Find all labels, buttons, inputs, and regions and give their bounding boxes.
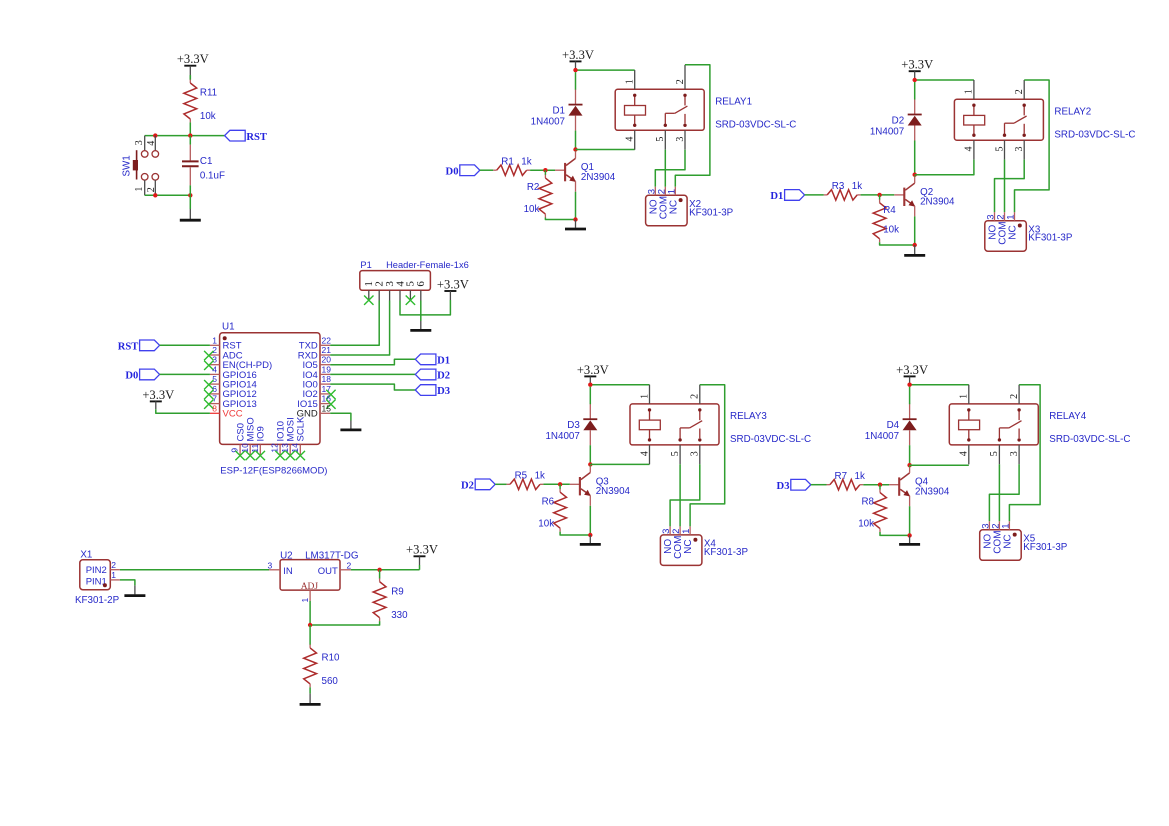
diode D1 1N4007: [531, 89, 583, 131]
wire R6 bottom to emitter node: [560, 532, 590, 535]
svg-text:1N4007: 1N4007: [870, 126, 904, 137]
svg-text:8: 8: [212, 403, 217, 413]
svg-text:2: 2: [1014, 89, 1025, 94]
svg-text:4: 4: [625, 137, 636, 142]
relay RELAY3 labels: [730, 411, 811, 445]
wire R10 bottom to ground: [309, 687, 311, 693]
svg-text:14: 14: [290, 443, 300, 453]
wire X1 pin 1 to ground: [120, 580, 135, 586]
connector P1 Header-Female-1x6: [360, 260, 469, 291]
resistor R2 10k: [524, 170, 552, 217]
svg-text:4: 4: [964, 147, 975, 152]
capacitor C1 0.1uF: [182, 145, 225, 186]
terminal X4 KF301-3P: [660, 526, 748, 565]
node: emitter/ground junction: [573, 217, 577, 221]
svg-text:1k: 1k: [852, 181, 862, 192]
+3.3V power (relay circuit 4): [896, 363, 928, 385]
svg-text:SW1: SW1: [122, 155, 133, 176]
wire diode anode to collector node: [575, 131, 577, 150]
P1 pin 6: [415, 281, 427, 301]
relay RELAY2 pin 1: [964, 80, 975, 99]
wire collector node to relay pin 4: [590, 463, 649, 465]
svg-text:2: 2: [212, 345, 217, 355]
ground (P1): [410, 321, 431, 330]
node: emitter/ground junction: [907, 533, 911, 537]
svg-text:R11: R11: [200, 88, 217, 99]
svg-text:R8: R8: [861, 497, 874, 508]
wire X1 pin 2 to U2 IN: [120, 569, 269, 571]
svg-text:D1: D1: [437, 356, 450, 367]
node: base of Q1: [543, 168, 547, 172]
svg-text:RELAY3: RELAY3: [730, 411, 767, 422]
+3.3V power (relay circuit 2): [901, 58, 933, 80]
svg-text:10k: 10k: [883, 224, 899, 235]
wire relay pin 3 (NO) to terminal: [995, 160, 1025, 213]
relay RELAY3 pin 3: [690, 445, 701, 464]
relay RELAY3 SRD-03VDC-SL-C: [630, 404, 719, 445]
wire supply node to diode cathode: [909, 387, 911, 405]
relay RELAY2 pin 2: [1014, 80, 1025, 99]
net flag D2 (input): [461, 479, 495, 492]
svg-text:R1: R1: [501, 157, 514, 168]
svg-text:2N3904: 2N3904: [915, 487, 950, 498]
svg-text:560: 560: [322, 676, 339, 687]
wire U1 RXD to P1 pin 3: [330, 301, 389, 356]
diode D3 1N4007: [545, 404, 597, 446]
svg-text:D3: D3: [567, 420, 580, 431]
wire P1 pin 6 to ground: [420, 301, 422, 322]
svg-text:2: 2: [111, 560, 116, 570]
wire C1 to bottom row: [189, 185, 191, 195]
wire relay pin 5 (COM) to terminal: [664, 150, 666, 187]
svg-text:9: 9: [230, 448, 240, 453]
wire diode anode to collector node: [589, 445, 591, 464]
wire emitter of Q2 to ground node: [914, 216, 916, 245]
wire U2 ADJ down: [309, 601, 311, 625]
relay RELAY2 pin 3: [1014, 140, 1025, 159]
node: collector supply junction: [913, 78, 917, 82]
U1 pin 15 GND: [297, 403, 332, 419]
svg-text:P1: P1: [360, 260, 371, 270]
svg-text:3: 3: [268, 560, 273, 570]
svg-text:+3.3V: +3.3V: [142, 388, 174, 402]
wire diode anode to collector node: [914, 141, 916, 175]
node: ADJ junction: [308, 623, 312, 627]
wire R11 to RST node: [189, 122, 191, 135]
svg-text:R10: R10: [322, 653, 341, 664]
wire relay pin 2 to NC rail: [1015, 80, 1050, 212]
svg-text:5: 5: [670, 451, 681, 456]
svg-text:SRD-03VDC-SL-C: SRD-03VDC-SL-C: [730, 434, 811, 445]
wire U2 OUT to +3.3V: [351, 569, 420, 571]
relay RELAY3 pin 1: [639, 385, 650, 404]
svg-text:1N4007: 1N4007: [865, 431, 899, 442]
wire relay pin 3 (NO) to terminal: [989, 464, 1019, 521]
svg-text:3: 3: [212, 355, 217, 365]
svg-text:2: 2: [690, 394, 701, 399]
U1 pin 3 EN(CH-PD): [204, 355, 272, 371]
resistor R5 1k: [507, 471, 545, 490]
switch SW1 pins 1/2 stubs: [134, 180, 157, 195]
svg-text:4: 4: [146, 141, 157, 146]
svg-text:10k: 10k: [538, 518, 554, 529]
relay RELAY1 pin 1: [625, 70, 636, 89]
svg-text:4: 4: [212, 364, 217, 374]
svg-text:R7: R7: [835, 471, 848, 482]
svg-text:18: 18: [322, 374, 332, 384]
wire collector node to Q2: [914, 175, 916, 178]
svg-text:SRD-03VDC-SL-C: SRD-03VDC-SL-C: [1049, 434, 1130, 445]
P1 pin 1: [363, 281, 375, 305]
wire U1 GND pin 15 to ground: [330, 413, 351, 420]
svg-text:330: 330: [391, 610, 408, 621]
ground (circuit 4): [899, 535, 920, 544]
net flag D1: [415, 354, 450, 367]
U1 pin 1 RST: [210, 335, 242, 351]
svg-text:1: 1: [639, 394, 650, 399]
svg-text:R4: R4: [883, 205, 896, 216]
svg-text:21: 21: [322, 345, 332, 355]
net flag D1 (input): [770, 190, 804, 203]
resistor R8 10k: [858, 485, 886, 532]
svg-text:D2: D2: [437, 371, 450, 382]
wire +3.3V to R11: [189, 75, 191, 80]
svg-text:10k: 10k: [524, 204, 540, 215]
svg-text:1: 1: [111, 570, 116, 580]
wire +3.3V stub down: [419, 565, 421, 570]
node: collector supply junction: [907, 383, 911, 387]
svg-text:1: 1: [134, 187, 145, 192]
svg-text:20: 20: [322, 355, 332, 365]
svg-text:D2: D2: [892, 116, 905, 127]
resistor R11 10k: [184, 75, 217, 122]
svg-text:+3.3V: +3.3V: [901, 58, 933, 72]
svg-text:1: 1: [1000, 524, 1011, 529]
svg-text:3: 3: [690, 451, 701, 456]
ground (U1): [340, 421, 361, 430]
svg-text:NC: NC: [1008, 225, 1019, 239]
node: base of Q3: [558, 482, 562, 486]
U1 pin 14 SCLK: [290, 416, 307, 460]
U2 pin 2 OUT: [340, 560, 352, 570]
node: RST net junction: [188, 133, 192, 137]
svg-text:2N3904: 2N3904: [920, 197, 955, 208]
U1 pin 10 MISO: [240, 417, 257, 460]
relay RELAY3 pin 4: [639, 445, 650, 464]
wire R8 bottom to emitter node: [880, 532, 910, 535]
node: collector of Q2: [913, 173, 917, 177]
svg-text:ESP-12F(ESP8266MOD): ESP-12F(ESP8266MOD): [220, 465, 327, 476]
svg-text:1k: 1k: [855, 471, 865, 482]
svg-text:4: 4: [639, 451, 650, 456]
wire relay pin 5 (COM) to terminal: [1004, 160, 1006, 213]
relay RELAY1 pin 3: [675, 130, 686, 149]
P1 pin 5: [405, 281, 417, 305]
wire U1 IO5 to D1 flag: [330, 359, 415, 364]
node: U2 OUT junction: [377, 568, 381, 572]
svg-text:1: 1: [959, 394, 970, 399]
relay RELAY4 SRD-03VDC-SL-C: [949, 404, 1038, 445]
net flag RST (to U1): [118, 340, 160, 353]
wire relay pin 2 to NC rail: [675, 65, 710, 187]
svg-text:NC: NC: [1002, 534, 1013, 548]
U1 pin 13 MOSI: [280, 417, 297, 460]
wire R2 bottom to emitter node: [545, 218, 575, 220]
svg-text:R3: R3: [832, 181, 845, 192]
transistor Q3 2N3904: [570, 465, 631, 506]
svg-text:2N3904: 2N3904: [581, 172, 616, 183]
wire relay pin 3 (NO) to terminal: [655, 150, 685, 187]
svg-text:D4: D4: [887, 420, 900, 431]
resistor R9 330: [373, 570, 408, 621]
wire D1 flag to R3: [805, 194, 824, 196]
P1 pin 2: [374, 281, 386, 300]
U1 pin 8 VCC: [210, 403, 243, 419]
svg-text:RST: RST: [246, 132, 267, 143]
wire +3.3V to relay pin 1: [915, 79, 974, 81]
node: collector of Q1: [573, 147, 577, 151]
transistor Q1 2N3904: [555, 151, 616, 192]
wire +3.3V to relay pin 1: [576, 69, 635, 71]
U1 pin 22 TXD: [299, 335, 331, 351]
node: base of Q4: [878, 483, 882, 487]
svg-text:6: 6: [212, 384, 217, 394]
svg-text:1: 1: [681, 529, 692, 534]
svg-text:KF301-3P: KF301-3P: [704, 547, 749, 558]
wire RST node to C1: [189, 136, 191, 145]
svg-text:1: 1: [300, 598, 310, 603]
wire +3.3V to U1 VCC pin 8: [156, 409, 210, 413]
wire relay pin 3 (NO) to terminal: [670, 464, 700, 526]
relay RELAY4 pin 2: [1009, 385, 1020, 404]
wire relay pin 2 to NC rail: [690, 385, 725, 527]
svg-text:12: 12: [270, 443, 280, 453]
svg-text:5: 5: [989, 451, 1000, 456]
relay RELAY4 pin 3: [1009, 445, 1020, 464]
svg-text:KF301-2P: KF301-2P: [75, 595, 120, 606]
svg-text:1: 1: [964, 89, 975, 94]
svg-text:13: 13: [280, 443, 290, 453]
resistor R10 560: [304, 625, 340, 687]
wire R9 bottom to ADJ node: [310, 621, 380, 625]
U1 pin 7 GPIO13: [204, 394, 257, 410]
U1 pin 18 IO0: [302, 374, 331, 390]
svg-text:2N3904: 2N3904: [596, 486, 631, 497]
svg-text:R6: R6: [542, 496, 555, 507]
node: emitter/ground junction: [588, 533, 592, 537]
terminal X2 KF301-3P: [646, 187, 734, 226]
node: C1 bottom junction: [188, 193, 192, 197]
node: collector supply junction: [573, 68, 577, 72]
svg-text:+3.3V: +3.3V: [437, 277, 469, 291]
wire R5 to base node: [543, 483, 569, 485]
svg-text:1: 1: [212, 335, 217, 345]
U1 pin 5 GPIO14: [204, 374, 257, 390]
wire collector node to Q4: [909, 466, 911, 468]
resistor R6 10k: [538, 484, 566, 531]
svg-text:D1: D1: [552, 106, 565, 117]
svg-text:U2: U2: [280, 550, 293, 561]
relay RELAY1 pin 2: [675, 65, 686, 90]
wire supply node to diode cathode: [589, 387, 591, 405]
svg-text:SRD-03VDC-SL-C: SRD-03VDC-SL-C: [715, 120, 796, 131]
node: collector of Q3: [588, 462, 592, 466]
wire relay pin 5 (COM) to terminal: [679, 464, 681, 526]
ground (reset): [180, 209, 201, 220]
wire U1 TXD to P1 pin 2: [330, 301, 379, 346]
P1 pin 3: [384, 281, 396, 301]
svg-text:IO9: IO9: [256, 426, 267, 441]
wire +3.3V to relay pin 1: [910, 384, 969, 386]
+3.3V power (relay circuit 3): [577, 363, 609, 385]
svg-text:7: 7: [212, 394, 217, 404]
svg-text:11: 11: [250, 444, 260, 453]
switch SW1 body: [122, 150, 159, 180]
terminal X1 KF301-2P: [75, 550, 120, 606]
wire collector node to Q3: [589, 465, 591, 466]
relay RELAY2 pin 5: [994, 140, 1005, 159]
wire collector node to Q1: [575, 150, 577, 152]
wire emitter of Q4 to ground node: [909, 506, 911, 535]
svg-text:+3.3V: +3.3V: [562, 48, 594, 62]
svg-text:SCLK: SCLK: [296, 416, 307, 441]
U1 pin 19 IO4: [302, 364, 331, 380]
terminal X3 KF301-3P: [985, 212, 1073, 251]
svg-text:RST: RST: [118, 342, 139, 353]
net flag D3: [415, 385, 450, 398]
wire D0 flag to U1 pin 4: [160, 373, 210, 375]
wire relay pin 5 (COM) to terminal: [998, 464, 1000, 521]
svg-text:1N4007: 1N4007: [545, 431, 579, 442]
net flag D0 (from U1): [125, 369, 159, 382]
+3.3V power (reset): [177, 52, 209, 75]
U1 pin 2 ADC: [204, 345, 243, 361]
U1 pin 6 GPIO12: [204, 384, 257, 400]
ground (X1): [124, 585, 145, 595]
svg-text:PIN2: PIN2: [86, 565, 107, 576]
+3.3V power (P1): [437, 277, 469, 300]
net flag RST (output): [225, 130, 267, 143]
relay RELAY2 pin 4: [964, 140, 975, 159]
svg-text:RELAY2: RELAY2: [1054, 107, 1091, 118]
svg-text:19: 19: [322, 364, 332, 374]
net flag D3 (input): [777, 479, 811, 492]
relay RELAY4 pin 5: [989, 445, 1000, 464]
wire P1 pin 4 to +3.3V: [400, 300, 450, 315]
switch SW1 pins 3/4 stubs: [134, 136, 157, 151]
relay RELAY1 labels: [715, 97, 796, 131]
svg-text:+3.3V: +3.3V: [577, 363, 609, 377]
svg-text:1k: 1k: [535, 471, 545, 482]
wire SW1 bottom row: [145, 194, 191, 196]
+3.3V power (U2 OUT): [406, 543, 438, 565]
svg-text:22: 22: [322, 335, 332, 345]
svg-text:2: 2: [675, 79, 686, 84]
svg-text:10: 10: [240, 443, 250, 453]
ground (circuit 3): [580, 535, 601, 544]
svg-text:6: 6: [415, 281, 427, 287]
transistor Q2 2N3904: [894, 176, 955, 217]
wire collector node to relay pin 4: [576, 149, 635, 151]
node: collector supply junction: [588, 383, 592, 387]
svg-text:2: 2: [1009, 394, 1020, 399]
relay RELAY2 SRD-03VDC-SL-C: [954, 99, 1043, 140]
U1 pin 9 CS0: [230, 423, 247, 460]
relay RELAY1 SRD-03VDC-SL-C: [615, 89, 704, 130]
svg-text:D1: D1: [770, 191, 783, 202]
ground (R10): [300, 694, 321, 705]
wire diode anode to collector node: [909, 445, 911, 465]
svg-text:SRD-03VDC-SL-C: SRD-03VDC-SL-C: [1054, 129, 1135, 140]
svg-text:D0: D0: [125, 371, 138, 382]
svg-text:KF301-3P: KF301-3P: [1028, 233, 1073, 244]
wire R3 to base node: [861, 194, 895, 196]
U2 pin 1 ADJ: [300, 590, 310, 602]
relay RELAY4 labels: [1049, 411, 1130, 445]
wire emitter of Q1 to ground node: [575, 192, 577, 220]
diode D2 1N4007: [870, 99, 922, 141]
U1 pin 12 IO10: [270, 421, 287, 460]
+3.3V power (relay circuit 1): [562, 48, 594, 70]
U1 pin 4 GPIO16: [210, 364, 257, 380]
net flag D2: [415, 369, 450, 382]
wire supply node to diode cathode: [575, 72, 577, 90]
relay RELAY1 pin 5: [655, 130, 666, 149]
relay RELAY1 pin 4: [625, 130, 636, 149]
svg-text:4: 4: [959, 451, 970, 456]
node: emitter/ground junction: [913, 243, 917, 247]
transistor Q4 2N3904: [889, 466, 950, 507]
diode D4 1N4007: [865, 404, 917, 446]
svg-text:+3.3V: +3.3V: [896, 363, 928, 377]
svg-text:10k: 10k: [858, 519, 874, 530]
wire RST flag to U1 pin 1: [160, 344, 210, 346]
svg-text:0.1uF: 0.1uF: [200, 171, 225, 182]
IC U2 LM317T-DG body: [280, 550, 358, 592]
wire relay pin 2 to NC rail: [1009, 385, 1040, 522]
svg-text:+3.3V: +3.3V: [406, 543, 438, 557]
wire bottom row to ground: [189, 195, 191, 209]
relay RELAY3 pin 2: [690, 385, 701, 404]
wire collector node to relay pin 4: [915, 160, 974, 175]
svg-text:KF301-3P: KF301-3P: [689, 207, 734, 218]
svg-text:U1: U1: [222, 321, 235, 332]
node: SW1 pin2 junction: [153, 193, 157, 197]
relay RELAY4 pin 4: [959, 445, 970, 464]
node: collector of Q4: [907, 463, 911, 467]
svg-text:R9: R9: [391, 586, 404, 597]
svg-text:NC: NC: [668, 200, 679, 214]
svg-text:RELAY4: RELAY4: [1049, 411, 1086, 422]
svg-text:Header-Female-1x6: Header-Female-1x6: [386, 260, 469, 270]
node: base of Q2: [877, 193, 881, 197]
svg-text:2: 2: [146, 187, 157, 192]
svg-text:15: 15: [322, 403, 332, 413]
svg-text:10k: 10k: [200, 111, 216, 122]
svg-text:3: 3: [1009, 451, 1020, 456]
svg-text:D0: D0: [446, 166, 459, 177]
svg-text:D3: D3: [437, 386, 450, 397]
wire supply node to diode cathode: [914, 82, 916, 100]
svg-text:3: 3: [675, 137, 686, 142]
resistor R3 1k: [824, 181, 862, 200]
svg-text:X1: X1: [80, 550, 92, 561]
svg-text:C1: C1: [200, 156, 213, 167]
node: SW1 pin4 junction: [153, 133, 157, 137]
IC U1 ESP-12F body: [220, 321, 320, 444]
U2 pin 3 IN: [268, 560, 281, 570]
svg-text:3: 3: [1014, 147, 1025, 152]
